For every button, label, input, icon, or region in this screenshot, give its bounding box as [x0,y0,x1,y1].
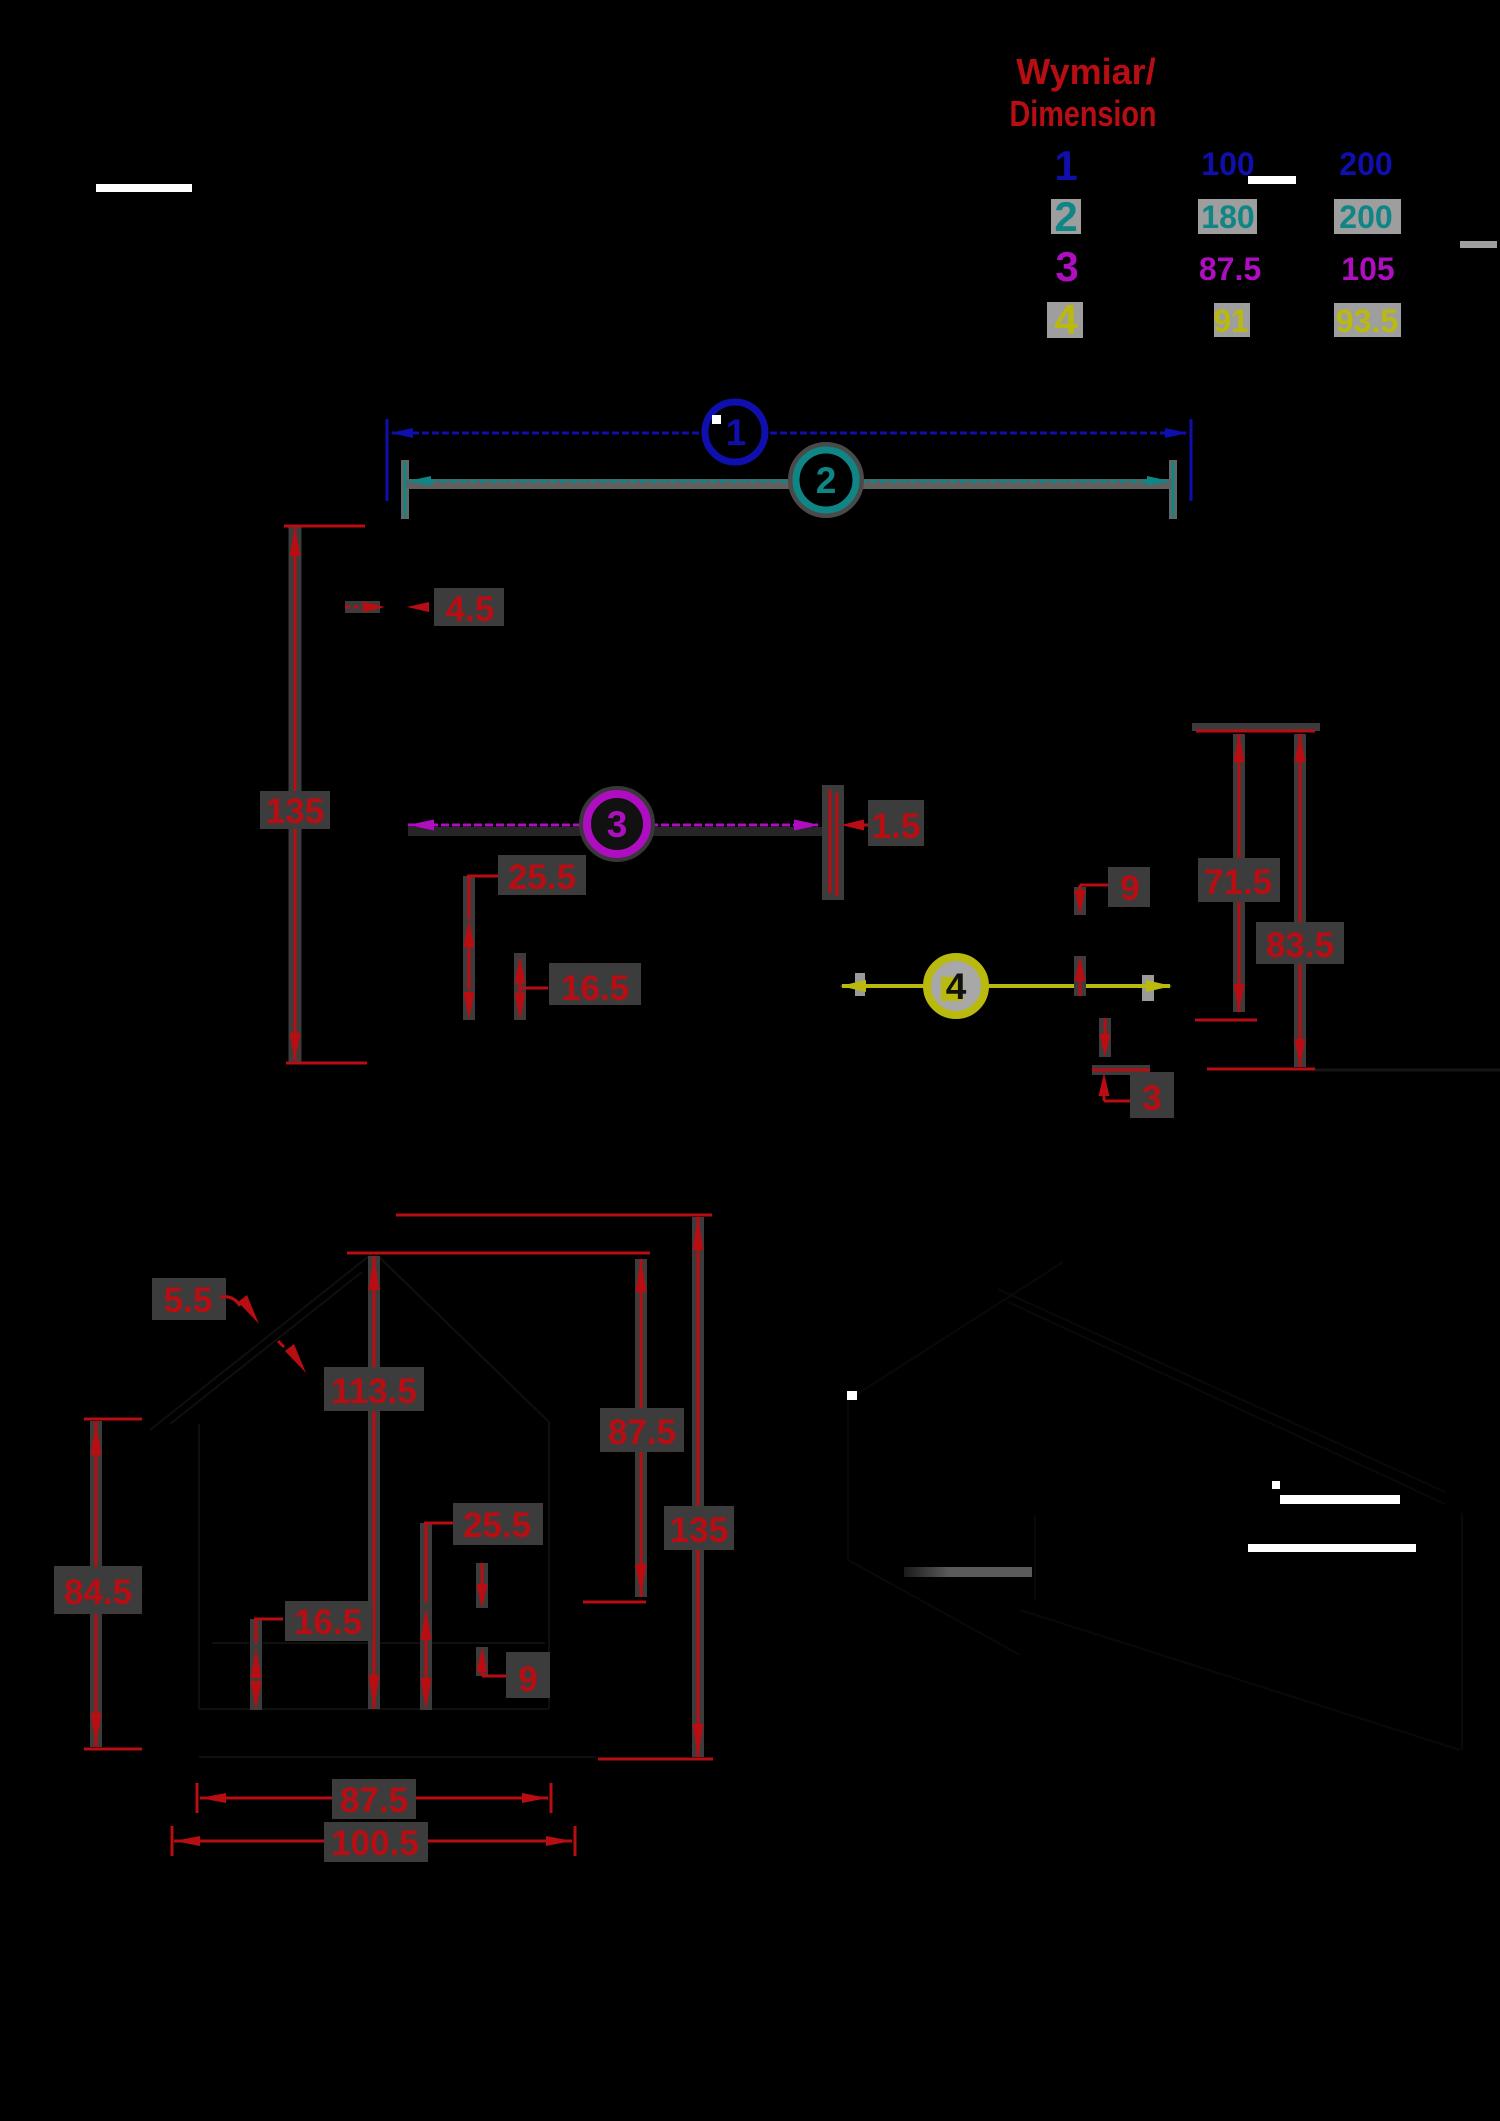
dim 135 (left red vertical) [260,526,367,1063]
dim 71.5 (right) [1192,723,1320,1020]
dim 4.5 (small red) [345,588,504,629]
dim 16.5 (house) [251,1601,374,1710]
dim 9 (middle right) [1075,867,1151,996]
svg-text:25.5: 25.5 [508,858,576,897]
table row highlight blocks [1047,199,1401,338]
table header Wymiar/Dimension [1010,51,1157,134]
svg-text:5.5: 5.5 [164,1281,213,1320]
grey dash right edge [1460,241,1497,248]
svg-text:135: 135 [670,1511,728,1550]
svg-text:9: 9 [518,1660,537,1699]
svg-text:1.5: 1.5 [872,807,921,846]
svg-text:83.5: 83.5 [1266,926,1334,965]
table index digits [1054,142,1078,343]
svg-text:16.5: 16.5 [294,1603,362,1642]
svg-text:200: 200 [1339,199,1392,235]
svg-text:1: 1 [1054,142,1077,189]
second tick (113.5 / 87.5) [347,1252,650,1255]
svg-text:100: 100 [1201,146,1254,182]
svg-text:200: 200 [1339,146,1392,182]
dim 25.5 (house) [421,1503,544,1710]
svg-text:87.5: 87.5 [608,1413,676,1452]
svg-text:4.5: 4.5 [446,590,495,629]
svg-text:84.5: 84.5 [64,1573,132,1612]
svg-text:Wymiar/: Wymiar/ [1016,51,1155,92]
svg-text:Dimension: Dimension [1010,93,1157,134]
svg-text:71.5: 71.5 [1204,863,1272,902]
svg-text:180: 180 [1201,199,1254,235]
title underline bar [96,184,192,192]
dim 3 (purple) [408,792,832,856]
svg-text:87.5: 87.5 [1199,251,1261,287]
dim 84.5 (far left) [54,1419,142,1749]
dim 83.5 (right) [1207,734,1500,1070]
svg-text:105: 105 [1341,251,1394,287]
svg-text:25.5: 25.5 [463,1506,531,1545]
svg-text:93.5: 93.5 [1336,303,1398,339]
svg-text:1: 1 [726,412,747,453]
svg-text:113.5: 113.5 [331,1372,417,1411]
table values [1199,146,1398,339]
dim 87.5 (bottom) [197,1779,551,1820]
faint house profile edges [150,1252,596,1757]
dim 87.5 (right of house) [583,1259,684,1602]
dim 100.5 (bottom) [172,1822,575,1863]
dim 3 (middle right small) [1092,1018,1174,1118]
dim 113.5 [324,1256,424,1709]
dim 135 (far right of house) [598,1217,734,1759]
svg-text:3: 3 [607,804,628,845]
white dash row1 [1248,176,1296,184]
dim 1 (blue) overall width [387,402,1191,501]
svg-text:4: 4 [946,966,967,1007]
dim 1.5 ticks + arrow [822,785,924,900]
svg-text:2: 2 [816,460,837,501]
svg-text:2: 2 [1054,193,1077,240]
svg-text:3: 3 [1142,1079,1161,1118]
svg-text:16.5: 16.5 [561,969,629,1008]
dim 25.5 (middle section) [464,855,587,1020]
dim 2 (teal) inner width [405,448,1173,519]
svg-text:9: 9 [1120,869,1139,908]
svg-text:100.5: 100.5 [331,1824,419,1863]
svg-text:3: 3 [1055,243,1078,290]
top tick (135) [396,1214,712,1217]
svg-text:91: 91 [1213,303,1249,339]
dim 16.5 (middle section) [515,953,642,1020]
dim 4 (olive) pipe axis [840,957,1172,1015]
svg-text:4: 4 [1054,296,1078,343]
dim 5.5 leader [152,1278,306,1373]
dim 9 (house) [477,1563,551,1699]
faint isometric edges [848,1262,1462,1750]
svg-text:87.5: 87.5 [340,1781,408,1820]
svg-text:135: 135 [266,792,324,831]
